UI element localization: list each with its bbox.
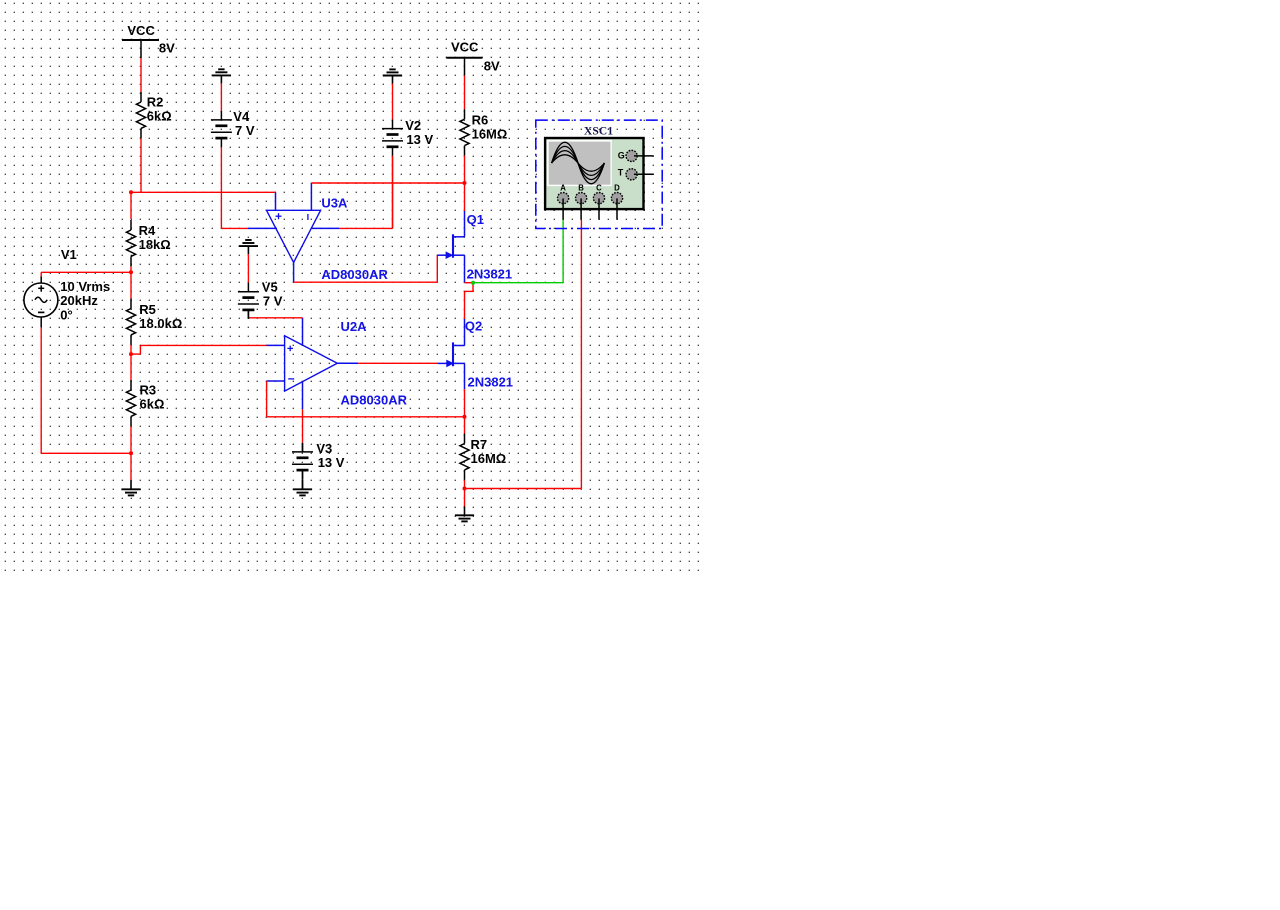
svg-text:16MΩ: 16MΩ bbox=[471, 451, 507, 466]
svg-text:V1: V1 bbox=[61, 247, 77, 262]
svg-text:7 V: 7 V bbox=[235, 123, 255, 138]
svg-text:R3: R3 bbox=[140, 382, 157, 397]
svg-text:R5: R5 bbox=[139, 302, 156, 317]
svg-text:U3A: U3A bbox=[321, 196, 348, 211]
svg-text:V3: V3 bbox=[316, 441, 332, 456]
svg-text:C: C bbox=[596, 184, 602, 193]
svg-text:V5: V5 bbox=[262, 280, 278, 295]
svg-text:13 V: 13 V bbox=[406, 132, 433, 147]
svg-text:18kΩ: 18kΩ bbox=[139, 237, 171, 252]
svg-text:16MΩ: 16MΩ bbox=[472, 127, 508, 142]
svg-text:XSC1: XSC1 bbox=[584, 125, 614, 137]
svg-text:U2A: U2A bbox=[341, 319, 368, 334]
svg-text:10 Vrms: 10 Vrms bbox=[60, 279, 110, 294]
svg-text:20kHz: 20kHz bbox=[60, 293, 98, 308]
svg-text:VCC: VCC bbox=[451, 39, 479, 54]
svg-text:7 V: 7 V bbox=[263, 294, 283, 309]
svg-text:AD8030AR: AD8030AR bbox=[321, 267, 388, 282]
svg-text:VCC: VCC bbox=[127, 23, 155, 38]
svg-text:18.0kΩ: 18.0kΩ bbox=[139, 316, 182, 331]
svg-text:Q2: Q2 bbox=[465, 319, 482, 334]
svg-text:2N3821: 2N3821 bbox=[467, 267, 513, 282]
svg-text:B: B bbox=[578, 184, 584, 193]
svg-text:6kΩ: 6kΩ bbox=[147, 109, 172, 124]
svg-text:A: A bbox=[560, 184, 566, 193]
svg-text:8V: 8V bbox=[484, 58, 500, 73]
svg-text:AD8030AR: AD8030AR bbox=[341, 393, 408, 408]
svg-text:D: D bbox=[614, 184, 620, 193]
svg-text:13 V: 13 V bbox=[318, 455, 345, 470]
svg-text:R7: R7 bbox=[471, 437, 488, 452]
svg-text:6kΩ: 6kΩ bbox=[140, 396, 165, 411]
svg-text:R6: R6 bbox=[472, 113, 489, 128]
svg-text:T: T bbox=[618, 168, 624, 178]
svg-text:0°: 0° bbox=[60, 307, 72, 322]
svg-text:R4: R4 bbox=[139, 223, 156, 238]
svg-text:V2: V2 bbox=[405, 118, 421, 133]
svg-text:V4: V4 bbox=[233, 109, 250, 124]
svg-text:Q1: Q1 bbox=[467, 212, 484, 227]
svg-text:2N3821: 2N3821 bbox=[468, 375, 514, 390]
svg-text:G: G bbox=[618, 151, 625, 161]
svg-text:8V: 8V bbox=[159, 40, 175, 55]
svg-text:R2: R2 bbox=[147, 95, 164, 110]
